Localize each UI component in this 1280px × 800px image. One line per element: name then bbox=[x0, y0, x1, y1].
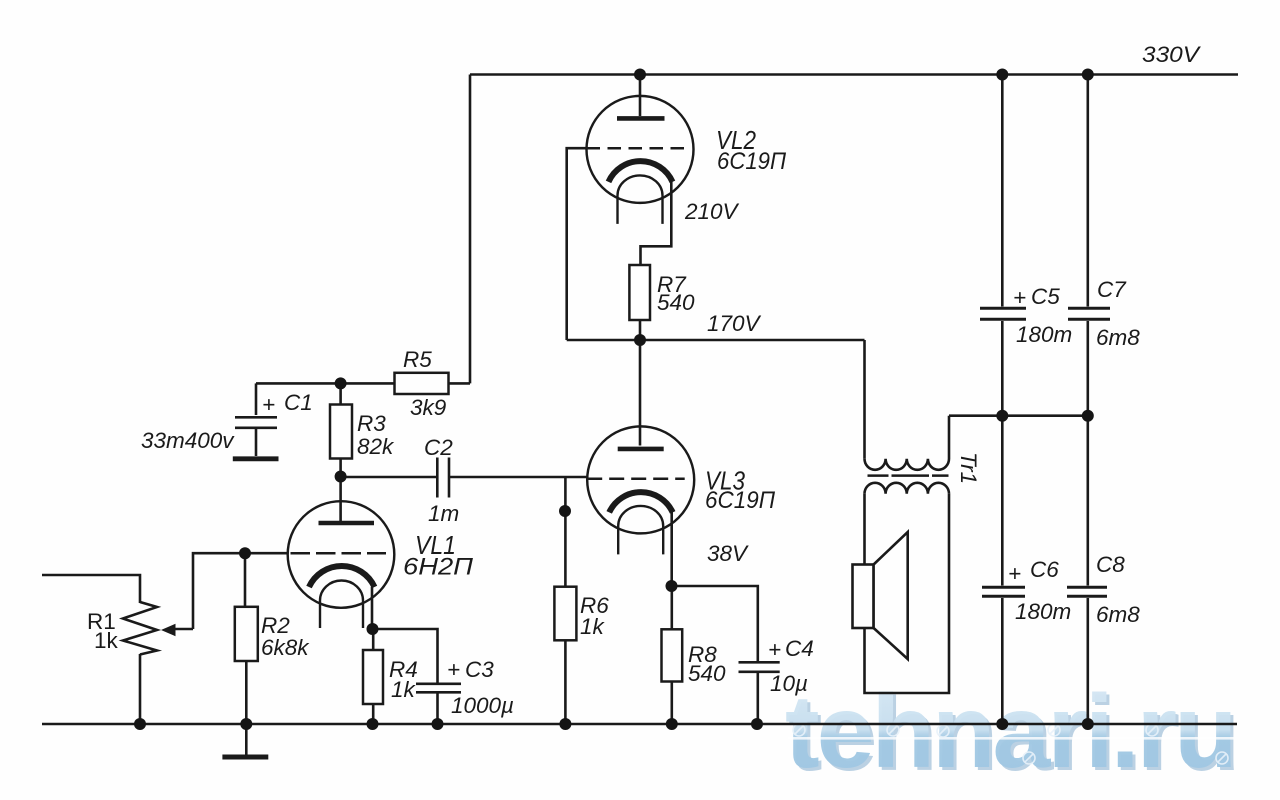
svg-text:540: 540 bbox=[688, 661, 726, 686]
svg-text:540: 540 bbox=[657, 290, 695, 315]
svg-text:1m: 1m bbox=[428, 501, 459, 526]
svg-text:1k: 1k bbox=[391, 677, 417, 702]
svg-text:10µ: 10µ bbox=[770, 671, 808, 696]
svg-text:6С19П: 6С19П bbox=[705, 487, 776, 514]
svg-text:C4: C4 bbox=[785, 636, 814, 661]
svg-text:+: + bbox=[447, 657, 460, 682]
svg-text:R3: R3 bbox=[357, 411, 386, 436]
svg-text:1k: 1k bbox=[94, 628, 119, 653]
svg-text:38V: 38V bbox=[707, 541, 749, 566]
svg-text:6m8: 6m8 bbox=[1096, 602, 1140, 627]
svg-text:tehnari.ru: tehnari.ru bbox=[785, 674, 1235, 790]
svg-text:+: + bbox=[768, 637, 781, 662]
svg-text:1000µ: 1000µ bbox=[451, 693, 514, 718]
svg-text:+: + bbox=[1013, 285, 1026, 310]
svg-text:C7: C7 bbox=[1097, 277, 1127, 302]
svg-text:330V: 330V bbox=[1142, 42, 1201, 67]
svg-text:82k: 82k bbox=[357, 434, 395, 459]
svg-text:C1: C1 bbox=[284, 390, 313, 415]
svg-text:6k8k: 6k8k bbox=[261, 635, 310, 660]
svg-text:3k9: 3k9 bbox=[410, 395, 447, 420]
svg-text:R5: R5 bbox=[403, 347, 432, 372]
svg-text:C3: C3 bbox=[465, 657, 494, 682]
svg-text:6Н2П: 6Н2П bbox=[403, 554, 474, 581]
svg-text:+: + bbox=[1008, 561, 1021, 586]
svg-text:33m400v: 33m400v bbox=[141, 428, 235, 453]
svg-text:170V: 170V bbox=[707, 311, 762, 336]
svg-text:C2: C2 bbox=[424, 435, 453, 460]
svg-text:+: + bbox=[262, 392, 275, 417]
svg-text:180m: 180m bbox=[1016, 322, 1072, 347]
svg-text:180m: 180m bbox=[1015, 599, 1071, 624]
svg-text:1k: 1k bbox=[580, 614, 606, 639]
svg-text:6С19П: 6С19П bbox=[717, 148, 787, 175]
svg-text:C8: C8 bbox=[1096, 552, 1125, 577]
svg-text:C5: C5 bbox=[1031, 284, 1060, 309]
svg-text:C6: C6 bbox=[1030, 557, 1059, 582]
svg-text:6m8: 6m8 bbox=[1096, 325, 1140, 350]
svg-text:210V: 210V bbox=[684, 199, 740, 224]
svg-text:Tr1: Tr1 bbox=[956, 452, 981, 484]
